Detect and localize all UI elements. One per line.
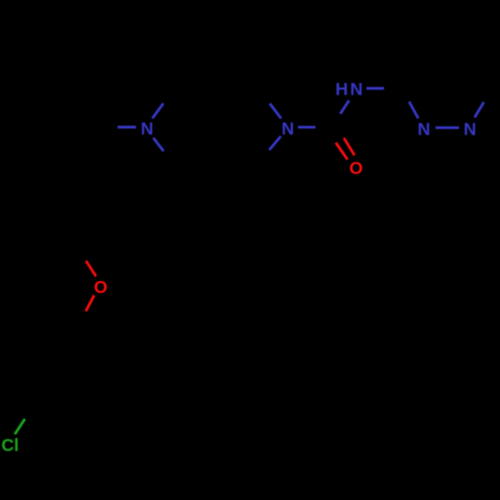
svg-text:N: N	[464, 119, 477, 139]
svg-text:N: N	[418, 119, 431, 139]
svg-text:O: O	[349, 158, 363, 178]
svg-text:N: N	[141, 119, 154, 139]
svg-text:H: H	[335, 79, 348, 99]
svg-text:N: N	[281, 119, 294, 139]
svg-text:Cl: Cl	[1, 435, 19, 455]
svg-text:N: N	[350, 79, 363, 99]
svg-text:O: O	[94, 277, 108, 297]
